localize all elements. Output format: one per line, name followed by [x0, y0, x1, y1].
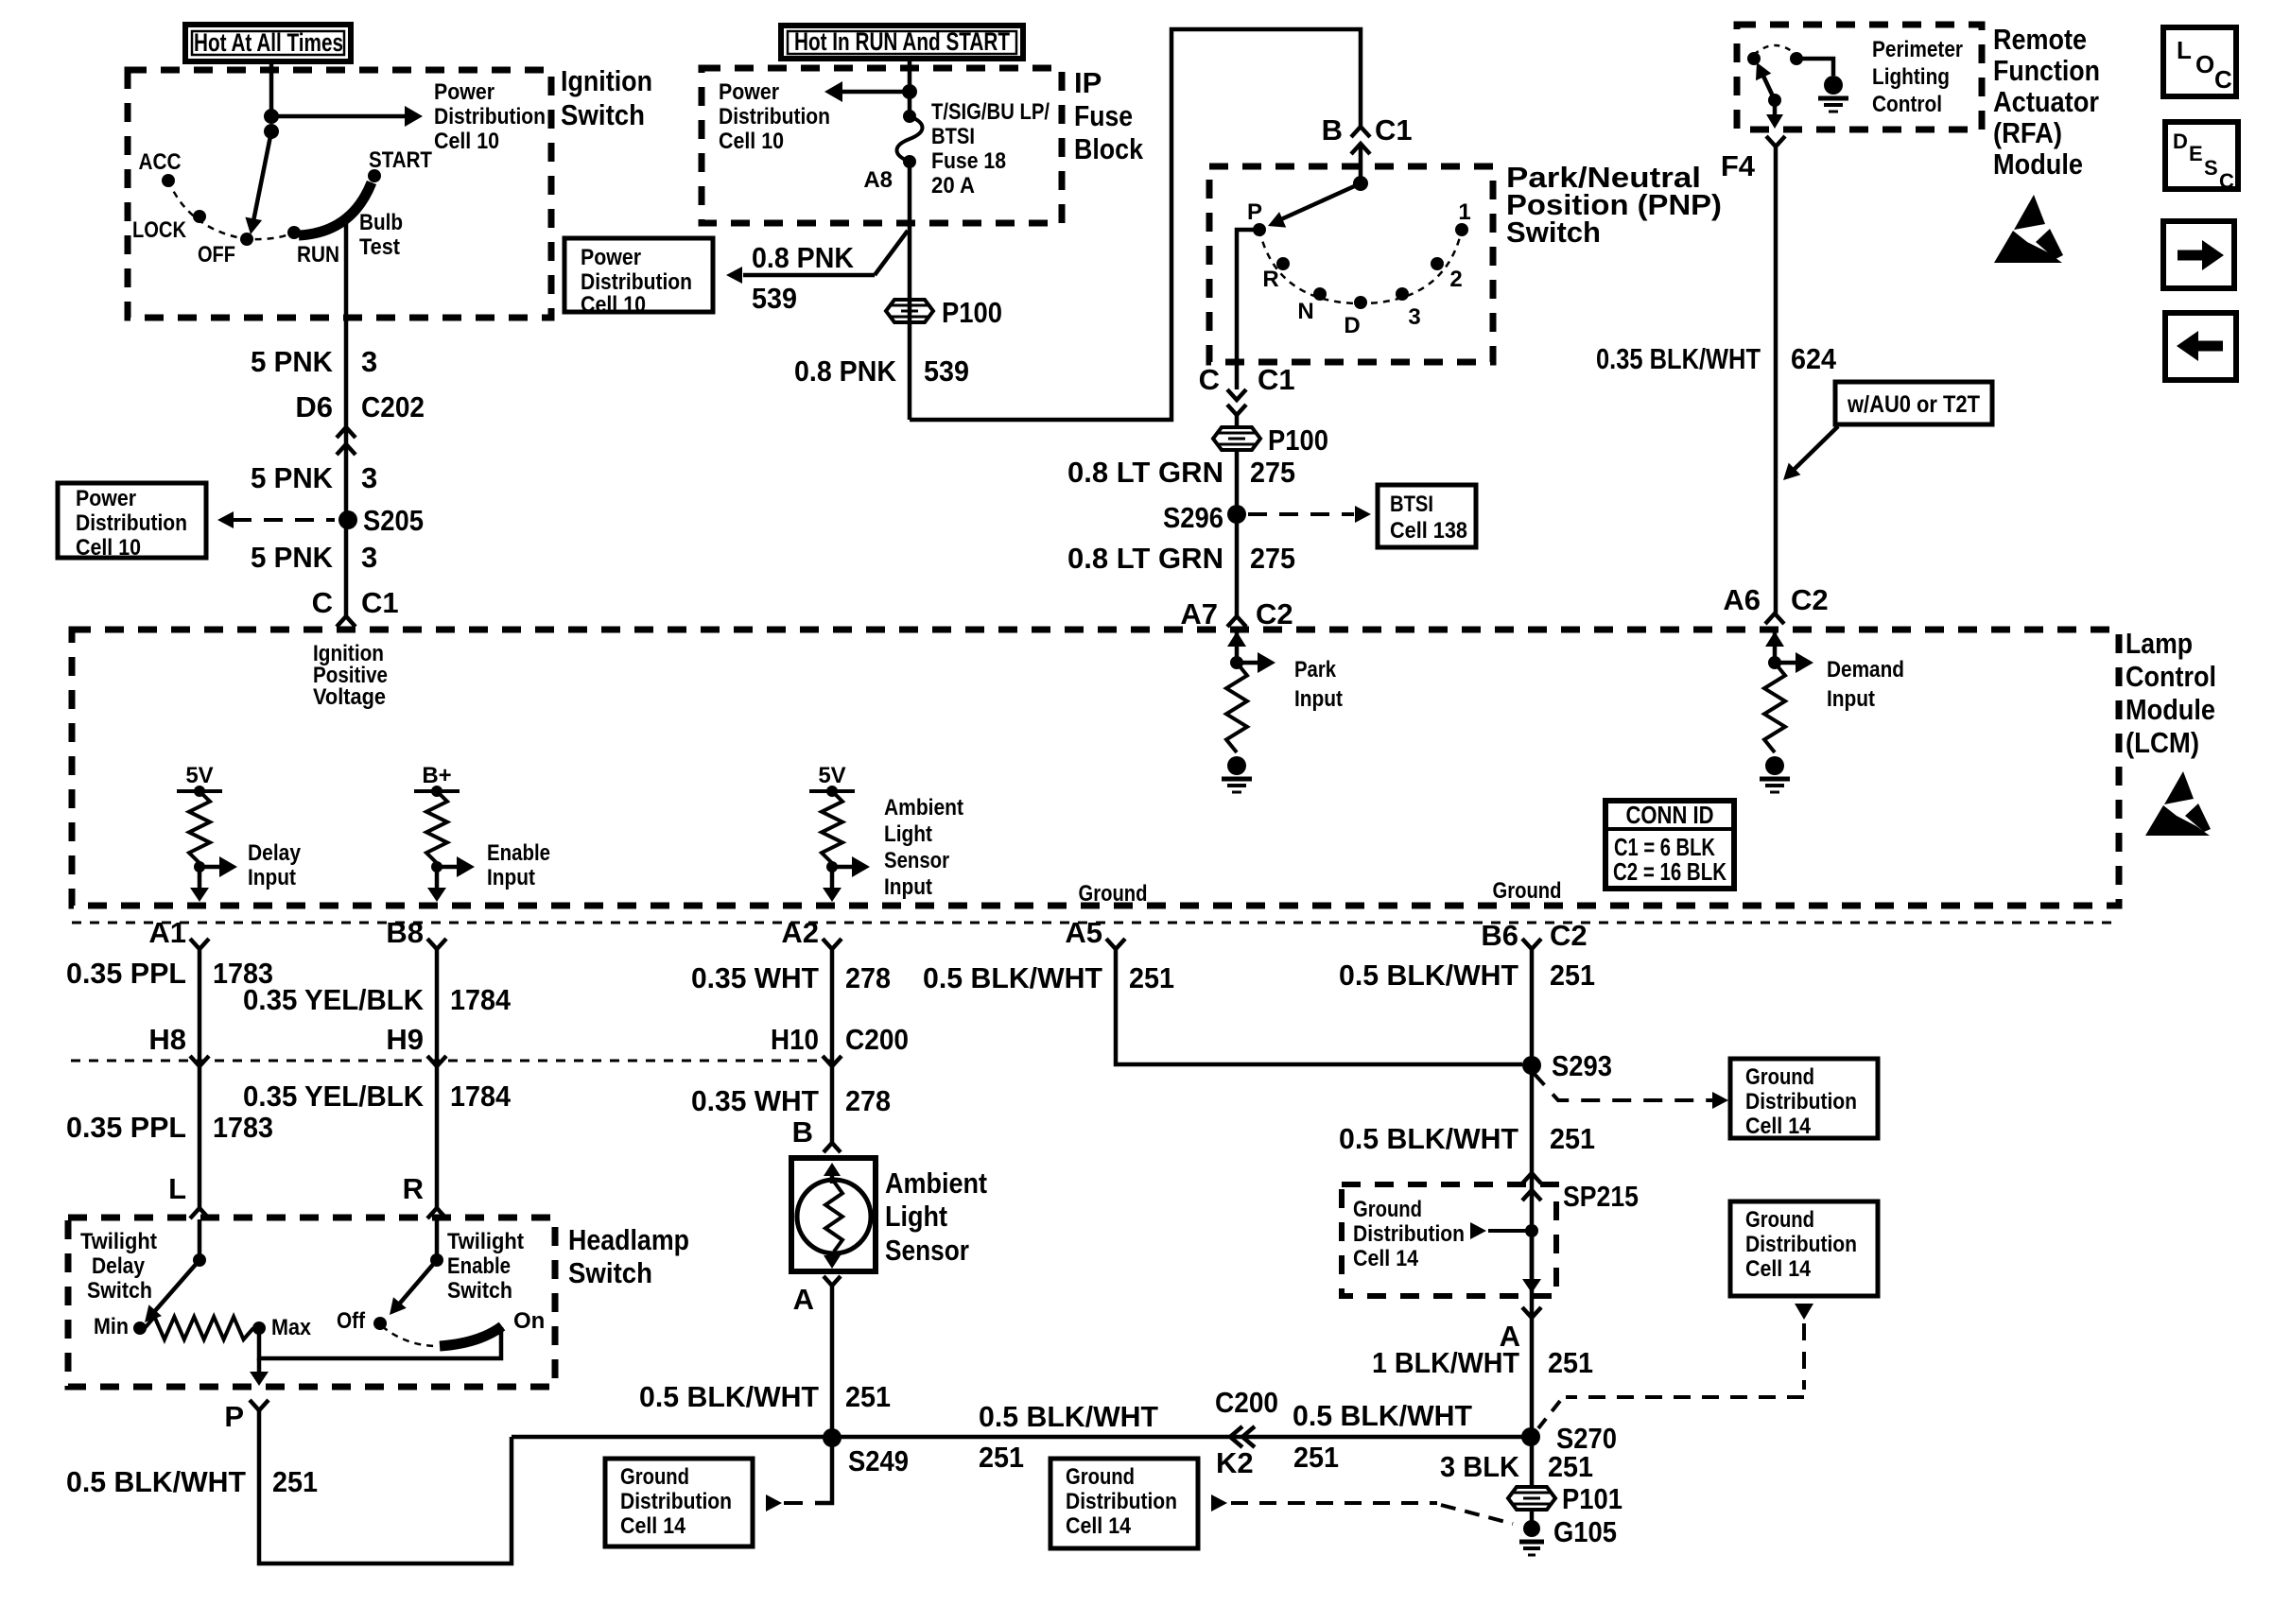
label 5 PNK 3: [251, 541, 377, 574]
svg-text:Delay: Delay: [92, 1253, 146, 1279]
svg-text:Distribution: Distribution: [1745, 1232, 1857, 1257]
label 0.5 BLK/WHT 251: [979, 1400, 1158, 1474]
splice S293: [1522, 1049, 1612, 1082]
wire P to ground bus: [259, 1410, 512, 1564]
svg-text:Distribution: Distribution: [620, 1489, 732, 1514]
wire sensor to S249: [830, 1286, 835, 1437]
node D: [1344, 296, 1367, 338]
label 0.35 YEL/BLK 1784: [243, 983, 512, 1016]
power feed box "Hot In RUN And START": [781, 26, 1023, 59]
svg-text:D: D: [2173, 130, 2188, 153]
svg-text:Twilight: Twilight: [80, 1229, 157, 1254]
svg-text:Ground: Ground: [1493, 878, 1562, 904]
label 0.35 PPL 1783: [66, 957, 273, 990]
demand input side arrow: [1775, 652, 1904, 712]
module name PNP Switch: [1506, 161, 1722, 249]
delay side arrow: [200, 840, 302, 890]
svg-text:Park: Park: [1294, 657, 1337, 682]
resistor demand input: [1764, 663, 1785, 752]
svg-text:5V: 5V: [818, 763, 845, 788]
wire fuse output: [908, 162, 912, 420]
wire arrow to Power Distribution: [824, 81, 910, 102]
headlamp switch module box: [68, 1218, 555, 1387]
wire max to on: [259, 1327, 501, 1358]
node 1: [1455, 199, 1471, 236]
connector C1 chevrons: [1227, 389, 1246, 415]
svg-text:Distribution: Distribution: [719, 104, 830, 130]
contact arc dashed: [1754, 45, 1796, 55]
svg-text:START: START: [369, 147, 432, 173]
wire: [269, 61, 274, 116]
svg-text:0.5 BLK/WHT: 0.5 BLK/WHT: [1293, 1399, 1472, 1432]
svg-text:LOCK: LOCK: [132, 217, 187, 243]
svg-text:C1: C1: [361, 586, 399, 619]
wire: [1235, 415, 1240, 427]
bulb test contact arc (closed): [299, 182, 372, 235]
svg-text:Block: Block: [1074, 132, 1144, 165]
node enable pivot: [430, 1253, 443, 1267]
resistor park input: [1226, 663, 1247, 752]
node 3: [1396, 287, 1421, 330]
svg-text:R: R: [403, 1172, 424, 1205]
resistor enable input: [426, 791, 447, 863]
splice S205: [338, 504, 424, 537]
svg-text:Off: Off: [337, 1308, 366, 1334]
svg-text:C2: C2: [1550, 919, 1588, 952]
label A7 C2: [1180, 597, 1293, 631]
label 0.5 BLK/WHT 251: [66, 1465, 318, 1498]
svg-text:251: 251: [1129, 961, 1174, 994]
park input side arrow: [1237, 652, 1343, 712]
svg-text:Ground: Ground: [620, 1464, 689, 1490]
node Max: [252, 1315, 312, 1340]
svg-text:D: D: [1344, 313, 1360, 338]
svg-text:Demand: Demand: [1827, 657, 1904, 682]
node R: [1262, 257, 1290, 292]
icon box prev arrow: [2165, 313, 2236, 380]
svg-text:0.35 YEL/BLK: 0.35 YEL/BLK: [243, 1080, 425, 1113]
wire A1 to headlamp switch: [198, 949, 202, 1208]
ref box Ground Distribution Cell 14: [1730, 1201, 1878, 1296]
svg-text:Distribution: Distribution: [1353, 1221, 1465, 1247]
inline connector P101: [1508, 1482, 1622, 1515]
splice output arrow: [1522, 1231, 1541, 1293]
sensor resistor: [825, 1182, 842, 1252]
dashed ref wire to Power Distribution: [217, 511, 335, 528]
svg-text:Cell 138: Cell 138: [1390, 518, 1467, 544]
svg-text:Input: Input: [487, 865, 535, 890]
label 0.8 LT GRN 275: [1067, 456, 1295, 489]
ref box Ground Distribution Cell 14 (K2): [1050, 1459, 1198, 1548]
connector pin A fork: [793, 1276, 841, 1316]
svg-text:L: L: [168, 1172, 186, 1205]
svg-text:3: 3: [361, 345, 377, 378]
svg-text:Switch: Switch: [447, 1278, 512, 1304]
label 0.8 PNK 539: [794, 354, 969, 388]
svg-text:C: C: [1199, 363, 1220, 396]
label 1 BLK/WHT 251: [1372, 1346, 1593, 1379]
label 0.5 BLK/WHT 251: [1339, 1122, 1595, 1155]
svg-text:Distribution: Distribution: [581, 269, 692, 295]
label 5 PNK 3: [251, 345, 377, 378]
svg-text:S293: S293: [1552, 1049, 1612, 1082]
label K2: [1216, 1446, 1254, 1479]
svg-text:Sensor: Sensor: [885, 1234, 969, 1267]
svg-text:0.5 BLK/WHT: 0.5 BLK/WHT: [639, 1380, 819, 1413]
ignition switch module box: [128, 70, 551, 318]
svg-text:BTSI: BTSI: [931, 124, 975, 149]
label A6 C2: [1723, 583, 1828, 616]
svg-text:O: O: [2195, 50, 2214, 78]
svg-text:Ambient: Ambient: [884, 795, 963, 821]
svg-text:Hot At All Times: Hot At All Times: [194, 28, 343, 57]
icon box LOC: [2163, 27, 2236, 96]
splice pack SP215 chevrons: [1522, 1173, 1639, 1213]
svg-text:P101: P101: [1562, 1482, 1622, 1515]
svg-text:(LCM): (LCM): [2126, 726, 2199, 759]
icon box next arrow: [2163, 221, 2234, 288]
connector pin A5 fork: [1065, 916, 1125, 949]
svg-text:Module: Module: [2126, 693, 2215, 726]
enable arrow down: [427, 867, 446, 902]
node left contact: [1747, 52, 1761, 65]
connector C202 chevrons: [337, 427, 356, 455]
svg-text:SP215: SP215: [1563, 1180, 1639, 1213]
svg-text:5 PNK: 5 PNK: [251, 345, 334, 378]
svg-text:Cell 14: Cell 14: [1066, 1513, 1132, 1539]
tap pointer 0.8 PNK 539: [726, 231, 908, 315]
power feed box "Hot At All Times": [185, 25, 351, 61]
svg-text:C200: C200: [845, 1023, 909, 1056]
wire P output: [1237, 230, 1259, 389]
node 2: [1431, 257, 1463, 292]
svg-text:Actuator: Actuator: [1993, 85, 2099, 118]
svg-text:0.35 YEL/BLK: 0.35 YEL/BLK: [243, 983, 425, 1016]
svg-text:5V: 5V: [185, 763, 213, 788]
svg-text:Function: Function: [1993, 54, 2100, 87]
svg-text:251: 251: [1550, 959, 1595, 992]
svg-text:Power: Power: [581, 245, 641, 270]
node battery feed junction: [264, 109, 279, 139]
dashed ref wire to S270: [1538, 1304, 1813, 1428]
svg-text:D6: D6: [295, 390, 333, 423]
PNP contact arc dashed: [1259, 230, 1462, 303]
node RUN: [287, 226, 339, 268]
svg-text:E: E: [2189, 142, 2203, 165]
label 5V: [185, 763, 213, 788]
svg-text:C: C: [2214, 65, 2232, 94]
svg-text:Ground: Ground: [1745, 1064, 1814, 1090]
label 0.5 BLK/WHT 251: [923, 961, 1174, 994]
resistor delay input: [189, 791, 210, 863]
svg-text:Min: Min: [94, 1314, 129, 1339]
svg-text:20 A: 20 A: [931, 173, 975, 199]
label 5V: [818, 763, 845, 788]
label Twilight Delay Switch: [80, 1229, 157, 1304]
svg-text:Lighting: Lighting: [1872, 64, 1950, 90]
splice arrow: [1470, 1222, 1538, 1239]
svg-text:278: 278: [845, 961, 891, 994]
svg-text:Perimeter: Perimeter: [1872, 37, 1963, 62]
connector pin A1 fork: [148, 916, 209, 949]
svg-text:Distribution: Distribution: [1745, 1089, 1857, 1114]
ref box Ground Distribution Cell 14: [605, 1459, 753, 1546]
label B+: [422, 763, 451, 788]
wire B6 to S270: [1530, 949, 1535, 1437]
svg-text:Enable: Enable: [487, 840, 550, 866]
svg-text:S: S: [2204, 156, 2218, 180]
svg-text:0.5 BLK/WHT: 0.5 BLK/WHT: [923, 961, 1102, 994]
svg-text:251: 251: [1548, 1450, 1593, 1483]
svg-text:0.8 PNK: 0.8 PNK: [752, 241, 855, 274]
wire A2 to sensor: [830, 949, 835, 1143]
node START: [368, 147, 432, 182]
node P: [1247, 199, 1266, 236]
svg-text:P: P: [224, 1400, 244, 1433]
svg-text:Module: Module: [1993, 147, 2083, 181]
label 0.35 WHT 278: [691, 961, 891, 994]
inline connector P100: [886, 296, 1002, 329]
label On: [513, 1308, 545, 1334]
wire jog to PNP switch: [910, 29, 1361, 420]
ref box BTSI Cell 138: [1378, 485, 1476, 547]
splice S270: [1521, 1422, 1617, 1455]
ref box w/AU0 or T2T: [1835, 382, 1992, 424]
svg-text:Lamp: Lamp: [2126, 627, 2193, 660]
module name LCM: [2126, 627, 2216, 759]
svg-text:F4: F4: [1721, 149, 1756, 182]
dashed ref wire K2 to G105: [1211, 1494, 1513, 1524]
switch blade arrow: [1756, 62, 1775, 100]
label 0.5 BLK/WHT 251: [1293, 1399, 1472, 1474]
svg-text:A8: A8: [863, 167, 893, 193]
svg-text:A7: A7: [1180, 597, 1218, 631]
label 3 BLK 251: [1440, 1450, 1593, 1483]
svg-text:B: B: [1322, 113, 1343, 147]
svg-text:Ambient: Ambient: [885, 1166, 987, 1200]
enable blade arrow: [390, 1260, 437, 1315]
sensor arrow up: [824, 1163, 841, 1183]
fuse 18 element: [897, 110, 923, 168]
svg-text:0.5 BLK/WHT: 0.5 BLK/WHT: [1339, 959, 1518, 992]
svg-text:2: 2: [1449, 267, 1462, 292]
label Ground Distribution Cell 14: [1353, 1197, 1465, 1271]
PNP switch module box: [1209, 166, 1493, 362]
svg-text:(RFA): (RFA): [1993, 116, 2062, 149]
svg-text:L: L: [2177, 36, 2192, 64]
svg-text:Remote: Remote: [1993, 23, 2087, 56]
svg-text:Cell 10: Cell 10: [434, 129, 499, 154]
rheostat: [145, 1317, 253, 1339]
label C C1: [312, 586, 399, 619]
splice S296: [1163, 501, 1246, 534]
svg-text:1784: 1784: [450, 983, 512, 1016]
svg-text:On: On: [513, 1308, 545, 1334]
svg-text:1: 1: [1458, 199, 1470, 225]
delay arrow down: [190, 867, 209, 902]
delay blade arrow: [145, 1260, 200, 1322]
svg-text:Delay: Delay: [248, 840, 302, 866]
dashed ref wire to BTSI: [1248, 506, 1371, 523]
switch blade arrow to P: [1268, 183, 1361, 228]
ground bus wire: [512, 1435, 1531, 1440]
node N: [1297, 287, 1327, 324]
svg-text:A6: A6: [1723, 583, 1761, 616]
label 0.35 YEL/BLK 1784: [243, 1080, 512, 1113]
svg-text:Enable: Enable: [447, 1253, 511, 1279]
svg-text:C202: C202: [361, 390, 425, 423]
svg-text:C1: C1: [1258, 363, 1295, 396]
node Min: [94, 1314, 147, 1339]
module connector face line: [72, 922, 2119, 924]
ref box Ground Distribution Cell 14: [1730, 1059, 1878, 1139]
svg-text:0.5 BLK/WHT: 0.5 BLK/WHT: [66, 1465, 246, 1498]
conn id table: [1605, 801, 1734, 889]
svg-text:3 BLK: 3 BLK: [1440, 1450, 1520, 1483]
svg-text:0.35 WHT: 0.35 WHT: [691, 1084, 819, 1117]
svg-text:539: 539: [752, 282, 797, 315]
svg-text:C: C: [2219, 169, 2234, 193]
label Perimeter Lighting Control: [1872, 37, 1963, 117]
svg-text:A1: A1: [148, 916, 186, 949]
svg-text:Control: Control: [2126, 660, 2216, 693]
svg-text:275: 275: [1250, 456, 1295, 489]
node fuse feed: [902, 84, 917, 99]
perimeter lighting control box: [1737, 25, 1982, 130]
connector pin B6 fork: [1481, 919, 1587, 952]
ref box Power Distribution Cell 10: [564, 238, 713, 318]
connector C200 chevrons: [1230, 1426, 1255, 1447]
headlamp output arrow: [250, 1358, 269, 1386]
label C C1: [1199, 363, 1295, 396]
svg-text:Ground: Ground: [1079, 881, 1148, 907]
connector pin A2 fork: [781, 916, 842, 949]
rotor contact arc dashed: [168, 181, 288, 239]
wire A5 to S293: [1116, 949, 1522, 1064]
node demand input: [1768, 656, 1781, 669]
svg-text:Light: Light: [884, 821, 932, 847]
connector pin B fork: [824, 1143, 841, 1152]
svg-text:0.8 LT GRN: 0.8 LT GRN: [1067, 456, 1223, 489]
connector pin R fork: [427, 1208, 446, 1218]
svg-text:Ground: Ground: [1066, 1464, 1135, 1490]
pointer arrow from w/AU0 box: [1783, 426, 1838, 480]
svg-text:Voltage: Voltage: [313, 684, 386, 710]
svg-text:Power: Power: [76, 486, 136, 511]
svg-text:Input: Input: [248, 865, 296, 890]
svg-text:T/SIG/BU LP/: T/SIG/BU LP/: [931, 99, 1050, 125]
wire: [1359, 144, 1363, 183]
svg-text:Input: Input: [1827, 686, 1875, 712]
ref arrow from Ground Distribution: [766, 1446, 832, 1512]
svg-text:A5: A5: [1065, 916, 1102, 949]
svg-text:P: P: [1247, 199, 1262, 225]
svg-text:Cell 14: Cell 14: [1353, 1246, 1419, 1271]
svg-text:C2: C2: [1791, 583, 1829, 616]
splice S249: [823, 1428, 909, 1477]
svg-text:278: 278: [845, 1084, 891, 1117]
delay pullup bar: [177, 786, 222, 797]
svg-text:Input: Input: [1294, 686, 1343, 712]
wire arrow to Power Distribution: [271, 106, 423, 127]
label 0.8 LT GRN 275: [1067, 542, 1295, 575]
svg-text:S249: S249: [848, 1444, 909, 1477]
wire to ground: [1796, 59, 1833, 76]
node right contact: [1790, 52, 1803, 65]
svg-text:Switch: Switch: [87, 1278, 152, 1304]
connector pin A6 fork: [1765, 613, 1784, 624]
svg-text:H10: H10: [771, 1023, 819, 1056]
svg-text:P100: P100: [1268, 423, 1328, 457]
svg-text:B+: B+: [422, 763, 451, 788]
label Ground: [1493, 878, 1562, 904]
svg-text:CONN ID: CONN ID: [1626, 801, 1714, 829]
svg-text:Switch: Switch: [561, 98, 645, 131]
label Power Distribution Cell 10: [434, 79, 546, 154]
connector pin A fork: [1500, 1307, 1541, 1353]
svg-text:B6: B6: [1481, 919, 1518, 952]
svg-text:Cell 10: Cell 10: [76, 535, 141, 561]
svg-text:251: 251: [979, 1441, 1024, 1474]
svg-text:3: 3: [361, 541, 377, 574]
svg-text:Ground: Ground: [1353, 1197, 1422, 1222]
park input arrow: [1227, 631, 1246, 663]
node ambient: [826, 861, 838, 872]
arrow out: [1766, 100, 1783, 129]
svg-text:C2: C2: [1256, 597, 1293, 631]
svg-text:251: 251: [1550, 1122, 1595, 1155]
node park input: [1230, 656, 1243, 669]
resistor ambient input: [822, 791, 842, 863]
svg-text:Fuse 18: Fuse 18: [931, 148, 1006, 174]
svg-text:Headlamp: Headlamp: [568, 1223, 689, 1256]
wire: [1235, 450, 1240, 615]
svg-text:Power: Power: [434, 79, 495, 105]
demand input arrow: [1765, 631, 1784, 663]
svg-text:Cell 14: Cell 14: [1745, 1114, 1812, 1139]
svg-text:0.5 BLK/WHT: 0.5 BLK/WHT: [979, 1400, 1158, 1433]
svg-text:S205: S205: [363, 504, 424, 537]
svg-text:Fuse: Fuse: [1074, 99, 1133, 132]
label Ground: [1079, 881, 1148, 907]
wire: [435, 1219, 440, 1260]
svg-text:Hot In RUN And START: Hot In RUN And START: [794, 27, 1010, 56]
wire: [1530, 1437, 1535, 1487]
label L: [168, 1172, 186, 1205]
wire F4 to LCM: [1774, 147, 1778, 615]
svg-text:Input: Input: [884, 874, 932, 900]
svg-text:Cell 10: Cell 10: [581, 292, 646, 318]
label B: [792, 1115, 813, 1149]
svg-text:539: 539: [924, 354, 969, 388]
svg-text:Test: Test: [359, 234, 400, 260]
svg-text:C1: C1: [1375, 113, 1413, 147]
ambient pullup bar: [809, 786, 855, 797]
node delay pivot: [193, 1253, 206, 1267]
svg-text:A2: A2: [781, 916, 819, 949]
node blade pivot: [1768, 94, 1781, 107]
ref box Power Distribution Cell 10: [58, 483, 206, 561]
svg-text:624: 624: [1791, 342, 1837, 375]
svg-text:0.35 WHT: 0.35 WHT: [691, 961, 819, 994]
svg-text:H8: H8: [148, 1023, 186, 1056]
switch blade arrow to OFF: [245, 131, 271, 234]
svg-text:Distribution: Distribution: [1066, 1489, 1177, 1514]
svg-text:Distribution: Distribution: [434, 104, 546, 130]
svg-text:Control: Control: [1872, 92, 1942, 117]
svg-text:251: 251: [845, 1380, 891, 1413]
inline connector P100: [1213, 423, 1328, 457]
